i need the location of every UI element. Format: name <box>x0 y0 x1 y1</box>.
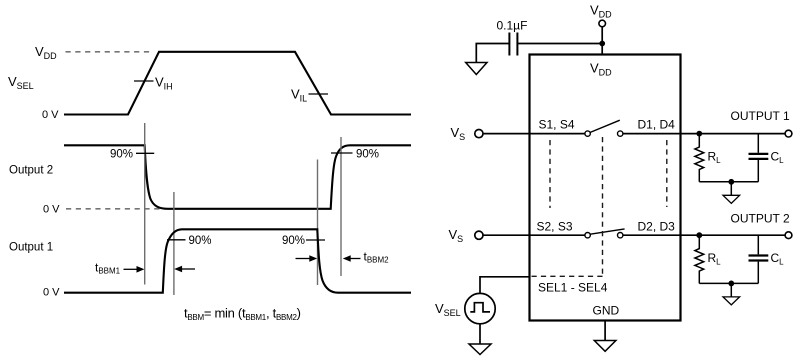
wire Output 1 waveform <box>64 229 411 292</box>
switch SW1 throw contact <box>618 131 623 136</box>
ground (channel 2 load) <box>723 297 740 305</box>
IC U1 box <box>530 55 681 321</box>
ground (VSEL source) <box>469 344 491 355</box>
wire VDD dashed level line <box>66 51 154 53</box>
node VIH tick <box>134 80 154 82</box>
node junction ground (channel 2) <box>728 281 734 287</box>
wire tBBM1 right arrow <box>181 268 196 270</box>
wire select dashed line center <box>602 137 604 276</box>
wire RL-CL bottom (channel 1) <box>699 181 758 183</box>
wire RL-CL bottom (channel 2) <box>699 282 758 284</box>
wire Output 2 waveform <box>64 145 411 209</box>
ground (GND pin) <box>594 341 616 352</box>
node 90% tick Output1 rise <box>167 239 186 241</box>
node 90% tick Output1 fall <box>306 239 325 241</box>
wire tBBM2 left arrow <box>296 258 311 260</box>
wire VSEL to box <box>480 277 530 294</box>
svg-text:90%: 90% <box>110 149 133 161</box>
wire select dashed line under S1,S4 <box>549 140 551 208</box>
svg-text:0.1µF: 0.1µF <box>497 19 528 33</box>
ground (bypass cap) <box>466 63 487 75</box>
resistor RL (channel 1) <box>695 134 704 182</box>
wire VS to switch S1,S4 <box>483 133 585 135</box>
ground (channel 1 load) <box>723 195 740 203</box>
wire GND pin to ground <box>604 321 606 341</box>
svg-text:90%: 90% <box>356 149 379 161</box>
wire D1,D4 to output 1 node <box>623 133 785 135</box>
svg-text:D2, D3: D2, D3 <box>638 220 676 234</box>
wire to ground (channel 2) <box>730 283 732 297</box>
svg-text:90%: 90% <box>282 235 305 247</box>
svg-text:0 V: 0 V <box>42 109 59 121</box>
resistor RL (channel 2) <box>695 235 704 283</box>
svg-text:OUTPUT 2: OUTPUT 2 <box>731 211 790 225</box>
svg-text:D1, D4: D1, D4 <box>638 117 676 131</box>
wire tBBM2 right arrow <box>349 258 361 260</box>
svg-text:Output 2: Output 2 <box>9 165 53 177</box>
wire gray vertical line 1 (right transition) <box>317 160 319 286</box>
node 90% tick Output2 fall <box>136 152 154 154</box>
capacitor CL (channel 1) <box>757 134 759 153</box>
svg-text:GND: GND <box>593 304 620 318</box>
wire tBBM1 left arrow <box>124 268 139 270</box>
node junction VDD <box>599 41 605 47</box>
svg-text:SEL1 - SEL4: SEL1 - SEL4 <box>538 281 608 295</box>
wire gray vertical line 2 (right transition) <box>340 137 342 276</box>
terminal VS channel 2 <box>475 231 483 239</box>
svg-text:0 V: 0 V <box>43 287 60 299</box>
source VSEL pulse symbol <box>470 303 490 312</box>
wire D2,D3 to output 2 node <box>623 234 785 236</box>
switch SW1 blade <box>590 120 620 132</box>
node 90% tick Output2 rise <box>331 152 353 154</box>
svg-text:Output 1: Output 1 <box>9 242 53 254</box>
wire VSEL waveform <box>64 52 411 115</box>
source VSEL pulse generator <box>465 293 495 323</box>
terminal OUTPUT 2 <box>785 232 792 239</box>
svg-text:0 V: 0 V <box>43 204 60 216</box>
wire to ground (channel 1) <box>730 182 732 196</box>
wire VDD to bypass cap <box>518 43 603 45</box>
terminal OUTPUT 1 <box>785 130 792 137</box>
wire VS to switch S2,S3 <box>483 234 585 236</box>
svg-text:S2, S3: S2, S3 <box>537 220 573 234</box>
node VIL tick <box>309 93 329 95</box>
svg-text:90%: 90% <box>189 235 212 247</box>
svg-text:S1, S4: S1, S4 <box>539 117 575 131</box>
capacitor C1 0.1uF <box>516 33 518 56</box>
switch SW1 pole contact <box>585 131 590 136</box>
switch SW2 blade <box>590 229 624 234</box>
node junction ground (channel 1) <box>728 179 734 185</box>
terminal VDD <box>599 20 606 27</box>
wire Output2 0V dashed level <box>66 208 163 210</box>
wire select dashed line under D1,D4 <box>666 140 668 207</box>
node junction output2/RL <box>696 232 702 238</box>
capacitor CL (channel 2) <box>757 235 759 254</box>
wire gray vertical line 2 (left transition) <box>173 192 175 295</box>
switch SW2 pole contact <box>585 233 590 238</box>
svg-text:OUTPUT 1: OUTPUT 1 <box>731 109 790 123</box>
node junction output1/RL <box>696 131 702 137</box>
wire VSEL to ground <box>479 324 481 344</box>
wire VDD to box <box>601 27 603 55</box>
wire cap to ground <box>476 44 509 63</box>
wire gray vertical line 1 (left transition) <box>144 123 146 285</box>
switch SW2 throw contact <box>618 233 623 238</box>
terminal VS channel 1 <box>475 130 483 138</box>
wire select dashed line horizontal <box>531 275 603 277</box>
